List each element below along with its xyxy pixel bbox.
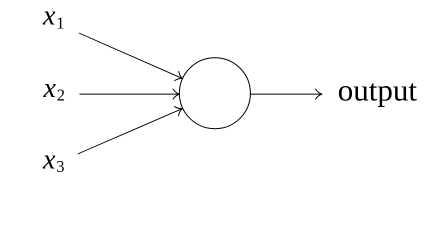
svg-text:x: x (42, 144, 56, 175)
svg-text:output: output (338, 72, 418, 107)
neuron circle (179, 58, 250, 129)
wire x1 to circle (79, 33, 183, 79)
wire x2 to circle (80, 93, 180, 95)
svg-text:2: 2 (57, 86, 65, 105)
svg-text:x: x (42, 1, 56, 32)
svg-text:1: 1 (56, 13, 64, 32)
svg-text:3: 3 (56, 157, 64, 176)
wire x3 to circle (78, 109, 183, 154)
wire circle to output (250, 93, 322, 95)
svg-text:x: x (43, 73, 57, 104)
